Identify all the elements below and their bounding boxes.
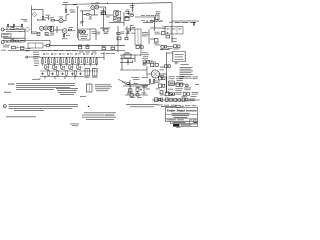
tube V4A	[79, 30, 82, 34]
wire	[121, 55, 123, 70]
label rows	[192, 92, 199, 95]
component boxes	[158, 75, 165, 80]
tube V1B	[91, 6, 95, 11]
resistor R2	[7, 24, 14, 27]
component row	[141, 20, 155, 22]
power transformer core	[166, 52, 168, 93]
capacitor C5b	[126, 10, 130, 15]
note item 5	[6, 115, 36, 118]
resistor R3	[21, 24, 22, 27]
resistor R22	[130, 94, 133, 97]
title block	[165, 108, 197, 122]
value rows	[160, 49, 170, 50]
wire	[132, 3, 134, 7]
wire	[65, 4, 67, 9]
part number	[70, 124, 79, 127]
wire	[91, 10, 98, 16]
wire	[124, 16, 130, 18]
plate resistor R16	[68, 29, 75, 31]
label	[175, 62, 179, 65]
component boxes	[176, 83, 183, 87]
resistor R18	[102, 46, 106, 50]
label rows	[175, 92, 182, 95]
wire	[106, 14, 113, 16]
tube V2 triode b	[44, 26, 48, 31]
value rows	[92, 31, 97, 34]
wire	[8, 41, 25, 43]
wire	[123, 85, 148, 87]
value label	[21, 19, 28, 21]
wire	[123, 12, 125, 26]
resistor R13	[11, 39, 15, 42]
wire	[125, 28, 135, 30]
value rows	[101, 52, 116, 55]
wire	[120, 54, 141, 56]
grid labels	[91, 3, 100, 4]
capacitor C2	[46, 15, 51, 20]
label row	[157, 104, 176, 107]
wire	[167, 52, 173, 54]
bracket	[32, 78, 40, 79]
component	[125, 38, 128, 40]
wire	[102, 28, 104, 31]
resistor R15	[37, 32, 41, 35]
tube V2A	[95, 5, 99, 10]
tube chart	[180, 67, 194, 79]
component cluster	[136, 87, 142, 92]
reverb unit box	[79, 29, 91, 40]
wire	[103, 8, 105, 28]
resistor R19	[111, 46, 115, 50]
terminal E1	[26, 56, 28, 58]
bias box	[124, 52, 131, 58]
wire bass bus	[44, 63, 98, 65]
value label	[100, 12, 105, 15]
fuse F1	[185, 84, 188, 87]
capacitor C13	[136, 93, 139, 96]
bridge rectifier CR1	[151, 70, 159, 78]
wire	[82, 11, 84, 26]
value label	[63, 1, 68, 4]
component cluster	[45, 44, 50, 47]
wire	[80, 22, 84, 24]
rectifier feed boxes	[151, 62, 159, 67]
value labels	[141, 14, 155, 17]
wire long	[50, 45, 125, 47]
resistor R5	[50, 17, 54, 21]
pot labels	[42, 50, 97, 52]
diode CR2	[32, 12, 37, 17]
wire	[117, 26, 119, 52]
value rows	[142, 85, 148, 88]
component box	[125, 16, 129, 20]
wire stubs	[45, 76, 75, 79]
value label	[106, 16, 110, 19]
value label	[1, 49, 6, 52]
node A	[37, 20, 38, 21]
value rows	[155, 81, 160, 84]
resistor R4	[42, 17, 47, 20]
output transformer T2	[173, 51, 186, 61]
tube V2B	[115, 12, 119, 17]
wire B+ top bus	[62, 3, 172, 5]
svg-text:Fender: Fender	[167, 109, 176, 113]
wire	[175, 62, 177, 65]
label rows	[132, 77, 148, 80]
component cluster	[45, 33, 50, 36]
capacitor C7	[6, 41, 7, 43]
value rows	[121, 32, 125, 35]
wire	[159, 73, 166, 75]
title block tail	[176, 126, 180, 129]
tube V2 triode c	[48, 26, 52, 31]
wire	[109, 21, 124, 23]
wire	[8, 29, 25, 31]
value rows	[142, 32, 149, 36]
value label	[156, 11, 161, 14]
wire	[134, 55, 136, 62]
resistor R14	[16, 40, 19, 42]
component box	[104, 29, 109, 34]
component box	[176, 105, 183, 107]
choke L1	[84, 69, 90, 78]
label rows	[176, 76, 184, 80]
capacitor C10b	[126, 31, 131, 34]
wire	[140, 44, 142, 56]
wire curve	[118, 80, 126, 85]
label rows	[169, 76, 176, 79]
wire	[54, 15, 69, 21]
terminal box	[155, 15, 159, 20]
value labels	[156, 77, 200, 98]
component cluster	[174, 45, 181, 50]
label	[160, 48, 170, 51]
tube V4B	[83, 30, 86, 34]
wire	[127, 59, 129, 66]
coupling capacitor C3	[73, 4, 78, 7]
ground symbols	[41, 72, 81, 75]
connector P2	[150, 20, 163, 22]
capacitor C5	[130, 5, 135, 12]
node B	[70, 12, 76, 13]
wire	[126, 26, 128, 37]
resistor R20	[143, 61, 153, 65]
tone capacitor C8	[78, 45, 82, 49]
wiper drops	[45, 58, 95, 63]
label row	[185, 104, 197, 107]
tube V2 triode a	[40, 26, 44, 31]
wire	[56, 26, 58, 33]
intensity pot	[154, 38, 161, 45]
note label	[4, 91, 11, 94]
value rows	[31, 32, 37, 35]
note row	[126, 104, 158, 107]
resistor R7	[83, 14, 91, 16]
tone labels	[45, 68, 81, 71]
speaker select box	[165, 27, 183, 35]
component cluster	[160, 91, 165, 96]
value labels	[162, 27, 166, 30]
component box	[21, 47, 25, 50]
wire	[28, 56, 40, 58]
input jack J2	[1, 41, 5, 44]
wire	[128, 86, 144, 95]
label rows	[175, 88, 183, 90]
potentiometer row	[42, 58, 97, 66]
component boxes	[183, 93, 189, 96]
wire	[172, 3, 199, 34]
filter capacitor C11	[127, 61, 133, 62]
value label	[20, 39, 24, 42]
diode labels	[160, 70, 165, 78]
wire	[53, 29, 62, 31]
note paragraph 4	[82, 112, 116, 119]
wire treble bus	[40, 57, 104, 59]
wire	[95, 29, 97, 40]
component cluster	[165, 92, 175, 95]
wire	[150, 27, 162, 29]
svg-text:Instrum: Instrum	[185, 109, 197, 113]
wire	[98, 7, 106, 15]
wire	[40, 75, 84, 77]
wire	[120, 58, 135, 60]
wire	[103, 52, 105, 60]
capacitor C10	[127, 26, 135, 31]
switch S1 cluster	[154, 98, 162, 102]
component box	[145, 61, 150, 64]
label rows	[184, 88, 191, 91]
component cluster	[161, 45, 167, 49]
schematic box	[87, 84, 93, 92]
value label	[130, 25, 136, 34]
cathode resistor R17	[63, 34, 70, 37]
wire	[120, 66, 147, 78]
wire	[49, 40, 51, 45]
value label	[62, 37, 68, 40]
value rows	[155, 32, 161, 35]
wire	[30, 6, 32, 34]
note label	[80, 95, 86, 98]
value rows	[26, 48, 31, 51]
wire	[125, 94, 148, 96]
tone capacitor C9	[86, 45, 90, 49]
value cluster	[142, 52, 149, 59]
note paragraph 3	[9, 104, 79, 111]
capacitor row	[172, 38, 177, 43]
wire	[161, 106, 176, 108]
wire	[6, 31, 25, 33]
title block number box	[173, 124, 197, 126]
wire	[100, 27, 110, 29]
lower pot row	[48, 71, 77, 77]
wire	[135, 16, 155, 18]
tube socket box	[114, 11, 121, 21]
label box INPUT	[2, 34, 11, 38]
resistor R11	[193, 23, 194, 26]
component boxes	[174, 99, 181, 102]
wire	[24, 30, 26, 43]
wire	[171, 34, 173, 42]
value label	[181, 63, 189, 66]
wire	[77, 8, 79, 38]
resistor R12	[11, 26, 15, 29]
value label	[69, 26, 74, 29]
note paragraph 1	[16, 83, 75, 90]
svg-text:Musical: Musical	[176, 109, 185, 113]
value label	[114, 9, 120, 12]
wire	[31, 8, 43, 10]
wire	[120, 62, 133, 64]
wire	[153, 17, 155, 31]
diode CR3	[25, 27, 30, 32]
value label	[125, 11, 130, 14]
vibrato unit box	[135, 29, 141, 45]
wire	[147, 73, 151, 75]
junction cluster	[127, 80, 131, 93]
plate resistor R6	[65, 10, 66, 13]
value rows	[167, 46, 173, 49]
input jack J1	[1, 28, 5, 31]
junctions	[14, 29, 21, 43]
junction	[57, 30, 58, 31]
note item circled 4	[3, 105, 6, 109]
relay box K1	[169, 81, 175, 85]
value label	[70, 9, 75, 12]
text rows	[97, 32, 101, 35]
value label	[16, 27, 25, 30]
tone network row	[45, 66, 82, 71]
wire	[8, 26, 22, 28]
wire	[160, 66, 165, 68]
wire	[80, 10, 91, 12]
note heading NOTES	[8, 83, 15, 86]
wire long	[8, 49, 125, 51]
value rows	[3, 45, 10, 48]
wire mains	[152, 99, 200, 101]
resistor R21	[149, 80, 155, 85]
tube V1A	[59, 17, 64, 23]
value rows	[50, 33, 55, 36]
wire	[3, 37, 25, 39]
wire long	[3, 39, 50, 41]
capacitor C12	[128, 89, 133, 93]
resistor R9	[117, 18, 121, 22]
component box	[101, 10, 106, 15]
choke L2	[92, 69, 98, 78]
cap value column	[33, 52, 40, 66]
component cluster	[12, 46, 25, 49]
cathode box	[50, 26, 53, 32]
junction	[107, 3, 108, 4]
wire	[169, 83, 185, 85]
capacitor C4	[89, 16, 93, 19]
title block revision box	[171, 121, 198, 124]
wire	[37, 19, 46, 21]
wire	[90, 28, 96, 30]
label	[130, 96, 142, 99]
resistor R8	[113, 17, 117, 20]
unit label	[80, 34, 88, 38]
component boxes	[158, 84, 164, 87]
resistor R10	[130, 13, 134, 16]
junction	[88, 106, 89, 107]
chassis box	[28, 43, 43, 48]
component	[136, 46, 143, 49]
wire curve	[168, 91, 175, 95]
component cluster	[117, 33, 121, 40]
label row	[169, 22, 196, 23]
value labels	[122, 82, 150, 94]
capacitor C6	[6, 27, 9, 31]
wire	[126, 84, 150, 86]
component boxes	[182, 98, 195, 101]
component cluster	[165, 65, 171, 68]
coupling capacitor row	[43, 54, 97, 55]
note paragraph 2	[56, 88, 78, 95]
note rows	[95, 84, 112, 91]
wire	[148, 29, 150, 44]
wire	[40, 70, 98, 72]
junction row	[42, 56, 97, 59]
component boxes	[165, 98, 172, 101]
cluster	[162, 31, 170, 38]
tube V3 phase inverter	[62, 29, 67, 34]
wire	[42, 9, 44, 16]
wire	[150, 38, 155, 40]
